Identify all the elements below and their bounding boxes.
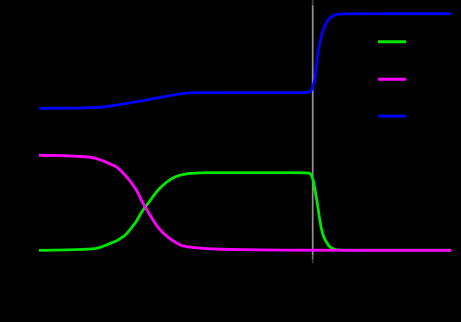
vertical perturbation marker line (fading bottom tail) [312,255,314,260]
magenta curve: reactant species concentration [39,155,451,250]
vertical perturbation marker line (dark tip) [312,0,314,6]
blue curve: product species concentration [39,14,451,109]
legend sample line green [378,40,406,43]
vertical perturbation marker line (main) [312,6,314,256]
green curve: intermediate species concentration [39,173,451,251]
legend sample line blue [378,115,406,118]
legend sample line magenta [378,78,406,81]
